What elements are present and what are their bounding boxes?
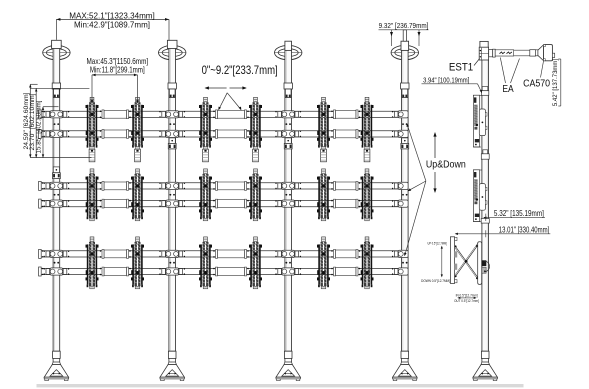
sleeve row3 bay2 lower — [213, 267, 249, 276]
pole P2 telescoping joint — [168, 138, 176, 149]
pole P1 — [52, 40, 62, 351]
sleeve row3 bay1 lower — [100, 267, 131, 276]
dimension 9.32 line — [379, 30, 429, 46]
pole P2 — [167, 40, 177, 351]
dimension 23.70 text — [29, 93, 36, 150]
pole P1 base foot — [44, 351, 68, 380]
sleeve row2 bay3 lower — [331, 199, 360, 208]
TV mounting bracket row3 col5 — [317, 237, 330, 289]
dimension left lines — [29, 84, 91, 157]
arrow up-down — [433, 132, 436, 193]
svg-text:DOWN 0.5"[12.7MM]: DOWN 0.5"[12.7MM] — [421, 279, 450, 283]
pole P2 rail clamps row2 — [159, 182, 185, 207]
TV mounting bracket row1 col6 — [361, 97, 374, 162]
wire row1 lower rail — [39, 129, 406, 138]
svg-text:5.32" [135.19mm]: 5.32" [135.19mm] — [494, 209, 544, 218]
TV mounting bracket row2 col1 — [86, 169, 99, 221]
TV mounting bracket row3 col3 — [199, 237, 212, 289]
sleeve row2 bay1 lower — [100, 199, 131, 208]
sleeve row1 bay2 upper — [213, 110, 249, 119]
ceiling plate oval P4 — [391, 45, 418, 59]
pole P3 telescoping joint — [284, 138, 292, 149]
wire row2 lower rail — [39, 199, 406, 208]
wire row2 upper rail — [39, 181, 406, 190]
dimension 3.94 text — [423, 75, 469, 84]
pole P4 rail clamps row3 — [392, 250, 408, 275]
sleeve row3 bay1 upper — [100, 250, 131, 259]
dimension 0-9.2 slide text — [202, 63, 278, 77]
dimension Max/Min bracket line — [91, 74, 139, 104]
pole P2 rail clamps row3 — [159, 250, 185, 275]
pole P4 — [401, 30, 409, 351]
ceiling plate oval P2 — [159, 45, 186, 59]
ceiling plate oval P1 — [43, 45, 70, 59]
dimension 5.32 text — [494, 209, 544, 218]
dimension Max/Min bracket spacing text — [87, 56, 149, 75]
sleeve row3 bay3 lower — [331, 267, 360, 276]
wire row1 upper rail — [39, 110, 406, 119]
pole P1 rail clamps row3 — [44, 250, 70, 275]
svg-text:EA: EA — [502, 84, 513, 95]
dimension 24.59 text — [23, 92, 30, 149]
svg-text:Up&Down: Up&Down — [426, 160, 466, 171]
sleeve row2 bay2 upper — [213, 182, 249, 191]
TV mounting bracket row2 col3 — [199, 169, 212, 221]
label OUT 0.5 — [454, 299, 479, 303]
EA arm — [489, 49, 536, 57]
leader CA570 — [541, 61, 544, 78]
pole P2 rail clamps row1 — [159, 111, 185, 138]
sleeve row3 bay2 upper — [213, 250, 249, 259]
dimension 15.85 text — [35, 100, 42, 153]
sleeve row3 bay3 upper — [331, 250, 360, 259]
TV mounting bracket row1 col5 — [317, 97, 330, 162]
CA570 mount head — [535, 45, 554, 61]
dimension 13.01 line — [455, 230, 551, 237]
EST1 pole joint — [481, 150, 489, 159]
sleeve row2 bay3 upper — [331, 182, 360, 191]
TV mounting bracket row3 col1 — [86, 237, 99, 289]
svg-text:IN 0.5"[12.7mm]: IN 0.5"[12.7mm] — [456, 293, 478, 297]
dimension 5.32 line — [483, 214, 545, 221]
svg-text:UP 0.5"[12.7MM]: UP 0.5"[12.7MM] — [428, 241, 447, 245]
label IN 0.5 — [456, 293, 478, 297]
dimension 5.42 line — [558, 59, 561, 106]
EST1 bracket lower — [473, 170, 487, 222]
sleeve row1 bay1 upper — [100, 110, 131, 119]
sleeve row2 bay2 lower — [213, 199, 249, 208]
EST1 base foot — [473, 351, 497, 380]
TV mounting bracket row1 col4 — [249, 97, 262, 162]
svg-text:0"~9.2"[233.7mm]: 0"~9.2"[233.7mm] — [202, 63, 278, 77]
TV mounting bracket row2 col4 — [249, 169, 262, 221]
TV mounting bracket row2 col2 — [131, 169, 144, 221]
EST1 pole upper joint — [481, 87, 488, 96]
pole P1 rail clamps row2 — [44, 182, 70, 207]
label CA570 — [523, 79, 550, 90]
sleeve row1 bay3 lower — [331, 130, 360, 139]
svg-text:3.94" [100.19mm]: 3.94" [100.19mm] — [423, 75, 469, 84]
pole P3 rail clamps row3 — [275, 250, 301, 275]
TV mounting bracket row2 col6 — [361, 169, 374, 221]
pole P4 base foot — [393, 351, 417, 380]
dimension 9.32 ceiling plate text — [379, 21, 429, 30]
tilt mechanism X-arms — [450, 237, 489, 285]
TV mounting bracket row3 col6 — [361, 237, 374, 289]
pole P3 rail clamps row1 — [275, 111, 301, 138]
svg-text:Min:42.9"[1089.7mm]: Min:42.9"[1089.7mm] — [74, 20, 150, 29]
pole P3 base foot — [276, 351, 300, 380]
pole P4 telescoping joint — [401, 138, 409, 149]
leader Up&amp;Down row3 — [404, 181, 426, 256]
TV mounting bracket row1 col1 — [86, 97, 99, 162]
EST1 bracket upper — [473, 95, 487, 147]
pole P2 base foot — [160, 351, 184, 380]
label EST1 — [449, 62, 473, 74]
wire row3 upper rail — [39, 249, 406, 258]
svg-text:EST1: EST1 — [449, 62, 473, 74]
EST1 top clamp — [479, 47, 488, 60]
sleeve row1 bay2 lower — [213, 130, 249, 139]
pole P3 rail clamps row2 — [275, 182, 301, 207]
pole P1 rail clamps row1 — [44, 111, 70, 138]
leader Up&amp;Down row2 — [407, 181, 426, 191]
EST1 pole — [480, 41, 489, 351]
leader Up&amp;Down row1 — [407, 123, 426, 181]
EST1 pole collar — [481, 219, 489, 224]
svg-text:Min:11.8"[299.1mm]: Min:11.8"[299.1mm] — [90, 65, 145, 74]
label DOWN 0.5 — [421, 279, 450, 283]
label Up&amp;Down — [426, 160, 466, 171]
pole P1 telescoping joint — [53, 167, 61, 179]
sleeve row1 bay1 lower — [100, 130, 131, 139]
dimension 0-9.2 slide arrows — [205, 86, 247, 89]
TV mounting bracket row2 col5 — [317, 169, 330, 221]
dimension MAX/Min pole spacing text — [69, 12, 155, 30]
sleeve row1 bay3 upper — [331, 110, 360, 119]
wire row3 lower rail — [39, 267, 406, 276]
leader EST1 — [474, 59, 480, 66]
label UP 0.5 — [428, 241, 447, 245]
svg-text:5.42" [137.73mm]: 5.42" [137.73mm] — [552, 59, 559, 106]
sleeve row2 bay1 upper — [100, 182, 131, 191]
leader 0-9.2 to sleeve — [218, 93, 241, 111]
pole P4 rail clamps row2 — [392, 182, 408, 207]
svg-text:OUT 0.5"[12.7mm]: OUT 0.5"[12.7mm] — [454, 299, 479, 303]
svg-text:CA570: CA570 — [523, 79, 550, 90]
arrow tilt in-out — [457, 297, 476, 299]
TV mounting bracket row3 col4 — [249, 237, 262, 289]
svg-text:9.32" [236.79mm]: 9.32" [236.79mm] — [379, 21, 429, 30]
pole P3 — [284, 41, 292, 351]
TV mounting bracket row1 col3 — [199, 97, 212, 162]
svg-text:Max:45.3"[1150.6mm]: Max:45.3"[1150.6mm] — [87, 56, 149, 66]
pole P4 rail clamps row1 — [392, 111, 408, 138]
arrow tilt up-down — [441, 246, 443, 278]
svg-text:13.01" [330.40mm]: 13.01" [330.40mm] — [499, 225, 550, 234]
TV mounting bracket row1 col2 — [131, 97, 144, 162]
dimension MAX/Min line — [56, 18, 169, 41]
dimension 13.01 text — [499, 225, 550, 234]
floor line — [37, 384, 524, 387]
label EA — [502, 84, 513, 95]
TV mounting bracket row3 col2 — [131, 237, 144, 289]
ceiling plate oval P3 — [275, 45, 302, 59]
dimension 5.42 text — [552, 59, 559, 106]
dimension 3.94 line — [422, 84, 483, 93]
leader EA — [500, 58, 519, 84]
